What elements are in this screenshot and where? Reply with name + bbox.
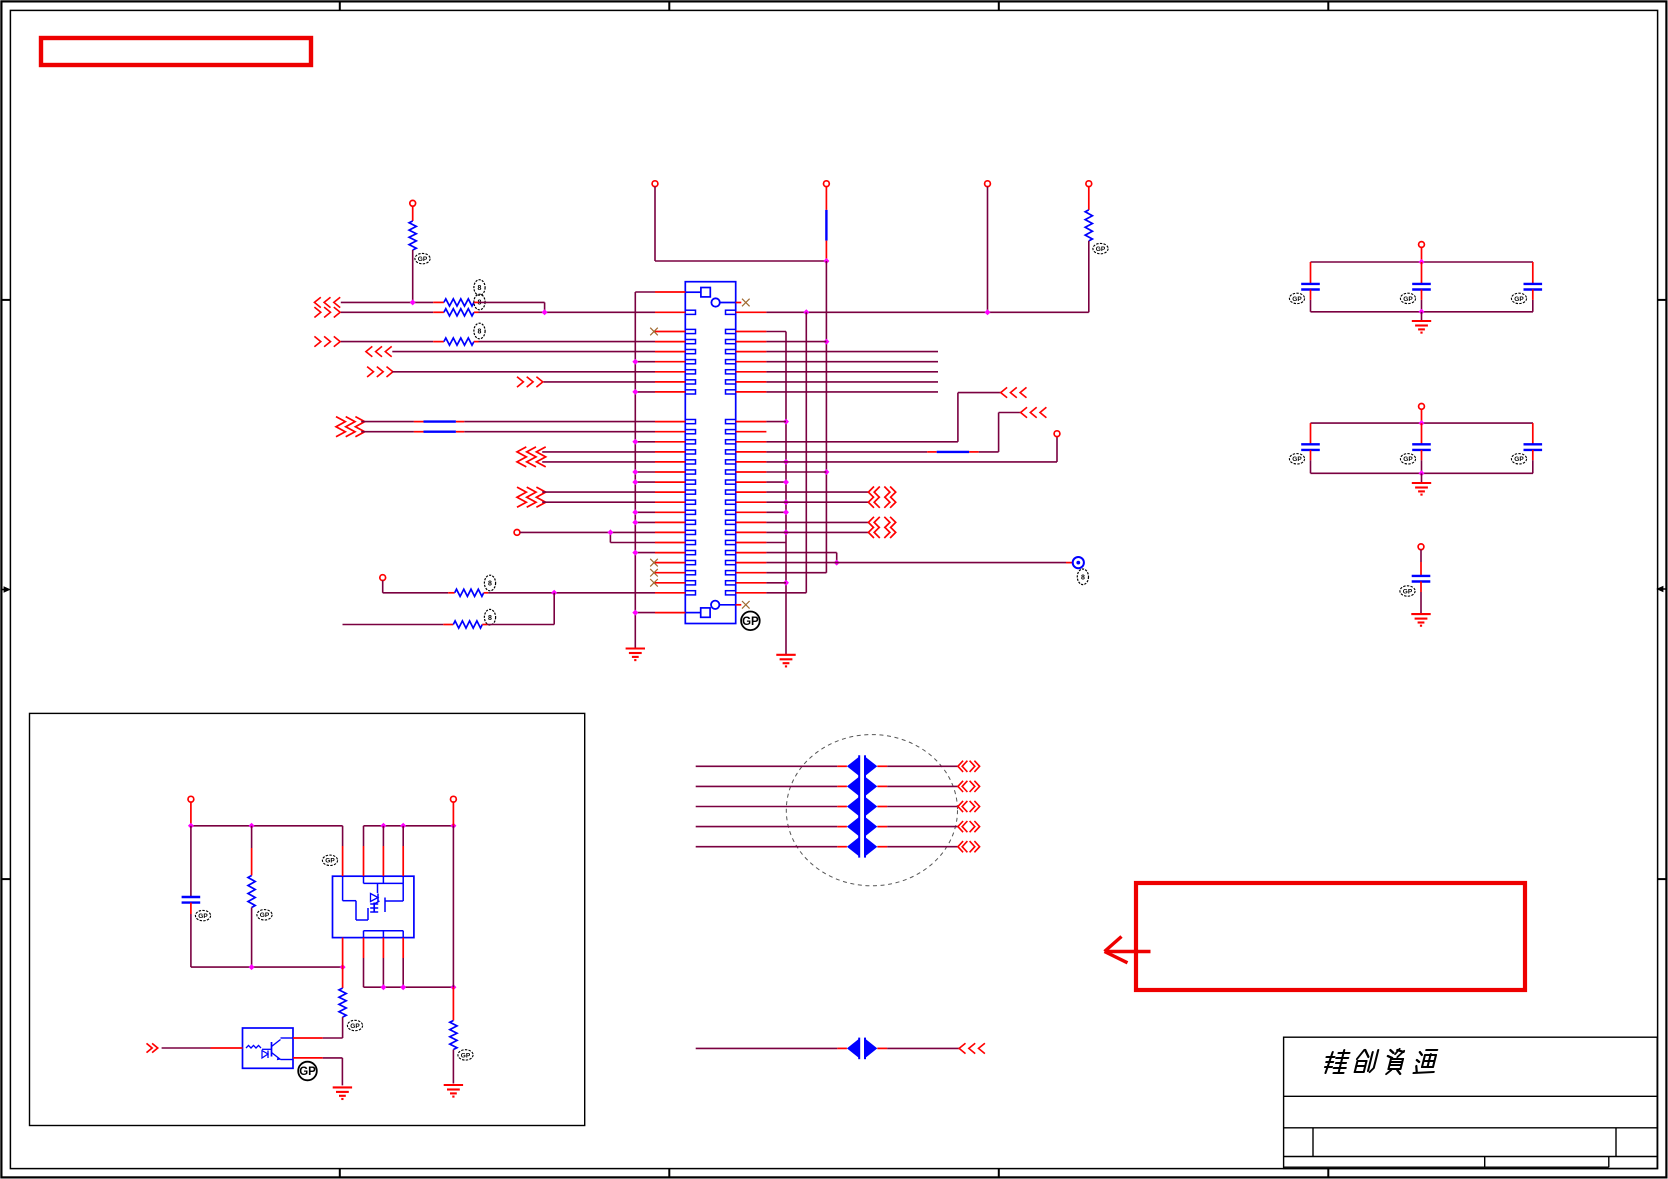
wire row9 with inline series element bbox=[361, 421, 414, 423]
bidirectional port row19 bbox=[868, 517, 874, 528]
mosfet internal wiring bbox=[363, 876, 365, 883]
bidirectional port row17 bbox=[868, 497, 874, 508]
connector J1 pin tabs left column bbox=[685, 310, 695, 314]
wire row3 with resistor R4 bbox=[341, 341, 433, 343]
diode array common bars bbox=[858, 755, 860, 857]
optocoupler input port >> bbox=[147, 1043, 153, 1052]
mosfet package U1 box bbox=[333, 876, 414, 937]
resistor R5 bbox=[455, 589, 484, 596]
wire row10 with inline series element bbox=[361, 431, 414, 433]
resistor R3 on W2 bbox=[444, 309, 474, 316]
svg-text:GP: GP bbox=[742, 616, 759, 628]
wire row17 bbox=[542, 501, 655, 503]
connector J1 pin tabs right column bbox=[726, 310, 736, 314]
optocoupler U2 box bbox=[243, 1028, 294, 1068]
connector J1 top mounting pad bbox=[701, 288, 710, 297]
pull-up resistor R1 with terminal bbox=[410, 200, 416, 206]
row15 right wire bbox=[766, 481, 786, 483]
optocoupler input wire bbox=[162, 1047, 211, 1049]
off-page port <<< net D6 bbox=[959, 1043, 965, 1053]
dashed highlight circle bbox=[786, 735, 957, 886]
svg-text:GP: GP bbox=[198, 913, 208, 920]
svg-text:GP: GP bbox=[1292, 296, 1302, 303]
rows 4-8 right wires bbox=[766, 351, 938, 353]
svg-text:8: 8 bbox=[478, 329, 482, 336]
off-page port <<< net B bbox=[1021, 407, 1027, 417]
row14 right wire to ground bus bbox=[766, 471, 826, 473]
svg-text:GP: GP bbox=[461, 1052, 471, 1059]
row25 right wire to ground bus bbox=[766, 582, 786, 584]
row3 right wire bbox=[766, 341, 826, 343]
label d5 of mosfet pack bbox=[322, 855, 337, 865]
bidirectional port row16 bbox=[868, 487, 874, 498]
svg-text:GP: GP bbox=[1514, 456, 1524, 463]
bottom rail B bbox=[364, 986, 454, 988]
resistor R2 on W1 bbox=[444, 299, 474, 306]
capacitor bank 2 (C4 C5 C6) with power terminal and ground bbox=[1419, 404, 1425, 410]
terminal TR bbox=[451, 796, 457, 802]
optocoupler output top wire bbox=[293, 1037, 323, 1039]
row21 right wire to ground bus bbox=[766, 542, 786, 544]
off-page port >>> row6 bbox=[367, 367, 373, 377]
row11 right wire to port bbox=[766, 441, 958, 443]
optocoupler output bottom wire bbox=[293, 1057, 323, 1059]
off-page port >>> row7 bbox=[517, 377, 523, 387]
ground symbol under right bus bbox=[776, 654, 795, 656]
off-page port <<< net W1 bbox=[314, 297, 320, 307]
frame zone ticks right bbox=[1658, 299, 1667, 301]
row9 right wire to ground bus bbox=[766, 421, 786, 423]
optocoupler internals bbox=[246, 1045, 261, 1048]
mosfet package pins bottom bbox=[342, 938, 344, 968]
no-connect X bottom-right circle pin bbox=[736, 604, 742, 606]
svg-text:GP: GP bbox=[1096, 246, 1106, 253]
row22 right wire down to row23 bbox=[766, 552, 836, 554]
wire row6 bbox=[392, 371, 655, 373]
no-connect X top-right circle pin bbox=[736, 302, 742, 304]
connector right pin stubs bbox=[736, 311, 767, 313]
resistor R10 bbox=[452, 987, 454, 1020]
svg-text:8: 8 bbox=[478, 285, 482, 292]
wire row16 bbox=[542, 491, 655, 493]
svg-text:8: 8 bbox=[1081, 574, 1085, 581]
connector J1 body bbox=[685, 282, 735, 624]
vertical net T1/T2 to row24 bbox=[825, 261, 827, 573]
GP flag at connector bottom bbox=[741, 612, 760, 631]
frame centre arrow left bbox=[1, 589, 9, 591]
single diode pair D6 with wires bbox=[696, 1047, 838, 1049]
red highlight box top-left bbox=[41, 38, 311, 65]
ground under R10 bbox=[444, 1084, 463, 1086]
left ground bus vertical bbox=[634, 292, 636, 649]
svg-text:GP: GP bbox=[1403, 296, 1413, 303]
wire row13 bbox=[542, 461, 655, 463]
svg-text:GP: GP bbox=[418, 256, 428, 263]
subcircuit boundary box bbox=[30, 713, 585, 1125]
row12 right wire with inline element to port bbox=[766, 451, 927, 453]
off-page port <<< row4 bbox=[366, 346, 372, 356]
diode pair D1 with wires and bidir port bbox=[696, 765, 838, 767]
stub wire with resistor R6 bbox=[343, 624, 444, 626]
wire W2 to pin row1 bbox=[341, 311, 433, 313]
terminal resistor network row 26 bbox=[380, 575, 386, 581]
GP flag near optocoupler bbox=[298, 1062, 317, 1081]
vertical net from row1 to row26 bbox=[805, 312, 807, 593]
capacitor bank 1 (C1 C2 C3) with power terminal and ground bbox=[1419, 242, 1425, 248]
row26 right wire bbox=[766, 592, 806, 594]
wire row12 bbox=[542, 451, 655, 453]
off-page port <<< net A bbox=[1001, 387, 1007, 397]
resistor R8 bbox=[251, 826, 253, 848]
svg-text:GP: GP bbox=[325, 858, 335, 865]
right vertical from terminal TR bbox=[452, 826, 454, 987]
rows16-17 wires to bidir ports bbox=[766, 491, 868, 493]
no-connect X marks on left pins bbox=[650, 328, 658, 336]
frame zone ticks left bbox=[1, 299, 10, 301]
ground under optocoupler bbox=[333, 1086, 352, 1088]
connector J1 top index circle pin bbox=[711, 298, 719, 306]
title block bbox=[1284, 1037, 1658, 1168]
terminal TL bbox=[188, 796, 194, 802]
branch wire to row20 bbox=[609, 532, 611, 542]
capacitor C7 with terminal and ground bbox=[1418, 544, 1424, 550]
off-page port >>> net W2 bbox=[314, 307, 320, 317]
ground symbol under left bus bbox=[626, 647, 645, 649]
top rail bbox=[191, 825, 343, 827]
frame centre arrow right bbox=[1659, 588, 1667, 590]
svg-text:GP: GP bbox=[299, 1066, 316, 1078]
diode pair D5 with wires and bidir port bbox=[696, 846, 838, 848]
svg-text:GP: GP bbox=[1403, 456, 1413, 463]
connector J1 bottom index circle pin bbox=[711, 601, 719, 609]
off-page port >>> pair rows 16-17 bbox=[517, 487, 526, 507]
bottom rail A bbox=[191, 966, 343, 968]
connector J1 bottom mounting pad bbox=[701, 608, 710, 617]
svg-text:GP: GP bbox=[1514, 296, 1524, 303]
mosfet package pins top bbox=[342, 826, 344, 846]
diode pair D4 with wires and bidir port bbox=[696, 826, 838, 828]
red arrow into bottom-right box bbox=[1106, 950, 1151, 953]
svg-text:8: 8 bbox=[488, 615, 492, 622]
off-page port >>> pair rows 9-10 bbox=[336, 417, 345, 437]
diode pair D2 with wires and bidir port bbox=[696, 785, 838, 787]
connector left pin stubs bbox=[655, 311, 685, 313]
power terminal T1 bbox=[652, 181, 658, 187]
wire row4 bbox=[392, 351, 655, 353]
terminal into rows 19-20 bbox=[514, 530, 520, 536]
resistor R9 bbox=[342, 967, 344, 988]
row23 wire to test point bullseye bbox=[766, 562, 1066, 564]
test point bullseye TP1 bbox=[1073, 557, 1084, 568]
svg-text:GP: GP bbox=[260, 912, 270, 919]
power terminal T2 with inline element bbox=[824, 181, 830, 187]
junction dots on left bus with stub wires bbox=[635, 361, 655, 363]
diode pair D3 with wires and bidir port bbox=[696, 806, 838, 808]
power terminal T3 bbox=[985, 181, 991, 187]
bidirectional port row20 bbox=[868, 527, 874, 538]
row2 right wire to ground bus bbox=[766, 331, 786, 333]
off-page port <<< pair rows 12-13 bbox=[517, 447, 526, 467]
red highlight box bottom-right bbox=[1136, 883, 1525, 990]
right ground bus vertical bbox=[785, 332, 787, 655]
svg-text:GP: GP bbox=[1403, 588, 1413, 595]
net row1 right wire bbox=[766, 311, 1088, 313]
capacitor C8 bbox=[190, 826, 192, 897]
terminal T4 with resistor R7 bbox=[1086, 181, 1092, 187]
rows19-20 wires to bidir ports bbox=[766, 521, 868, 523]
frame zone ticks top bbox=[339, 1, 341, 10]
off-page port >>> row3 bbox=[314, 336, 320, 346]
row24 right wire bbox=[766, 572, 826, 574]
frame zone ticks bottom bbox=[339, 1169, 341, 1178]
row13 right wire to terminal T5 bbox=[766, 461, 1057, 463]
row18 right wire to ground bus bbox=[766, 511, 786, 513]
wire W1 bbox=[341, 301, 433, 303]
company logo text bbox=[1322, 1049, 1439, 1074]
svg-text:8: 8 bbox=[488, 581, 492, 588]
mosfet Q1 symbol bbox=[371, 894, 379, 902]
svg-text:GP: GP bbox=[1292, 456, 1302, 463]
wire row7 bbox=[544, 381, 656, 383]
svg-text:GP: GP bbox=[350, 1023, 360, 1030]
